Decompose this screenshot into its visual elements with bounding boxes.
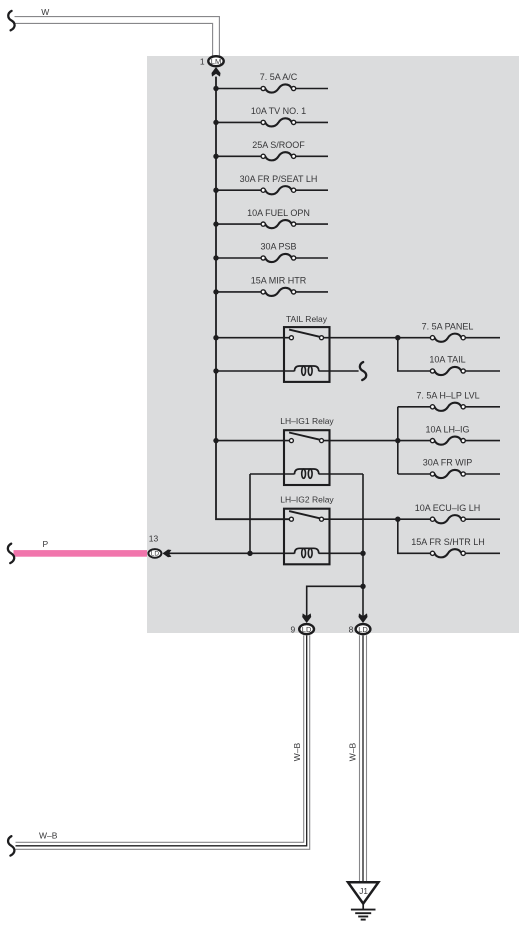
wire from relay coils down to connector 8 LD xyxy=(362,474,364,617)
junction coil ground at LH-IG2 xyxy=(360,551,365,556)
svg-text:TAIL Relay: TAIL Relay xyxy=(286,314,328,324)
junction at LH-IG2 relay output xyxy=(395,517,400,522)
connector 9 LD xyxy=(290,624,314,634)
junction at TAIL relay output xyxy=(395,335,400,340)
svg-text:7. 5A A/C: 7. 5A A/C xyxy=(260,72,298,82)
wire W-B from connector 9 LD to left edge xyxy=(16,635,310,849)
label W xyxy=(41,7,49,17)
junction on bus at TAIL relay switch xyxy=(213,335,218,340)
fuse F2 10A TV NO. 1 xyxy=(216,106,328,126)
TAIL relay coil xyxy=(216,366,359,375)
svg-text:30A FR P/SEAT LH: 30A FR P/SEAT LH xyxy=(240,174,318,184)
junction on bus at fuse 15A MIR HTR xyxy=(213,289,218,294)
wire from LH-IG1 output to 7.5A H-LP LVL and 30A FR WIP fuses xyxy=(398,407,431,474)
label P xyxy=(43,539,49,549)
fuse F13 10A ECU-IG LH xyxy=(415,503,500,523)
wire from LH-IG1 coil down to LD connectors xyxy=(249,474,251,553)
arrow into connector 8 LD xyxy=(359,613,368,623)
junction block panel xyxy=(147,56,519,633)
svg-text:10A LH–IG: 10A LH–IG xyxy=(425,424,469,434)
fuse F3 25A S/ROOF xyxy=(216,140,328,160)
junction of ground branch xyxy=(360,584,365,589)
arrow into connector 9 LD xyxy=(302,613,311,623)
junction on bus at fuse 30A PSB xyxy=(213,255,218,260)
junction of 13 LD wire with LH-IG1 coil branch xyxy=(247,551,252,556)
svg-text:W–B: W–B xyxy=(348,742,358,761)
label W-B rotated on 8 LD wire xyxy=(348,742,358,761)
LH-IG1 relay coil xyxy=(250,469,363,478)
svg-text:13: 13 xyxy=(149,533,159,543)
relay LH-IG2 xyxy=(280,495,334,565)
connector 13 LD xyxy=(148,533,161,557)
fuse F14 15A FR S/HTR LH xyxy=(411,537,500,557)
break symbol on wire P xyxy=(8,544,14,563)
junction on bus at fuse 7. 5A A/C xyxy=(213,86,218,91)
label W-B rotated on 9 LD wire xyxy=(292,742,302,761)
svg-text:LD: LD xyxy=(302,625,312,634)
fuse F8 7. 5A PANEL xyxy=(422,321,500,341)
svg-text:1: 1 xyxy=(200,56,205,66)
wire branch to connector 9 LD xyxy=(307,586,363,617)
break symbol on wire W xyxy=(8,11,14,30)
svg-text:LD: LD xyxy=(358,625,368,634)
wire W-B from connector 8 LD to ground J1 xyxy=(360,635,367,882)
svg-text:8: 8 xyxy=(349,624,354,634)
svg-text:W–B: W–B xyxy=(292,742,302,761)
bus wire from connector 1 LM down to LH-IG2 relay xyxy=(216,77,291,520)
svg-text:10A FUEL OPN: 10A FUEL OPN xyxy=(247,208,310,218)
svg-text:10A ECU–IG LH: 10A ECU–IG LH xyxy=(415,503,481,513)
fuse F5 10A FUEL OPN xyxy=(216,208,328,228)
svg-text:15A MIR HTR: 15A MIR HTR xyxy=(251,276,307,286)
relay TAIL xyxy=(284,314,330,382)
svg-text:LM: LM xyxy=(211,57,221,66)
svg-text:J1: J1 xyxy=(359,887,368,896)
svg-text:15A FR S/HTR LH: 15A FR S/HTR LH xyxy=(411,537,485,547)
svg-text:30A PSB: 30A PSB xyxy=(260,242,296,252)
fuse F11 10A LH-IG xyxy=(425,424,500,444)
connector 8 LD xyxy=(349,624,371,634)
break symbol after TAIL relay coil xyxy=(360,362,366,380)
LH-IG1 relay switch contact xyxy=(216,433,431,443)
wire from TAIL relay output down to 10A TAIL fuse xyxy=(398,338,431,371)
fuse F10 7. 5A H-LP LVL xyxy=(416,391,500,411)
wire P (pink) from left edge to connector 13 LD xyxy=(14,550,148,557)
wire from LH-IG2 output down to 15A FR S/HTR LH fuse xyxy=(398,519,431,553)
junction on bus at LH-IG1 relay switch xyxy=(213,438,218,443)
fuse F12 30A FR WIP xyxy=(423,458,500,478)
junction at LH-IG1 relay output xyxy=(395,438,400,443)
LH-IG2 relay coil xyxy=(169,548,364,557)
svg-text:W–B: W–B xyxy=(39,830,58,840)
LH-IG2 relay switch contact xyxy=(289,511,430,521)
svg-text:9: 9 xyxy=(290,624,295,634)
arrow into connector 13 LD xyxy=(163,550,172,558)
svg-text:7. 5A H–LP LVL: 7. 5A H–LP LVL xyxy=(416,391,479,401)
svg-text:P: P xyxy=(43,539,49,549)
junction on bus at fuse 25A S/ROOF xyxy=(213,154,218,159)
svg-text:LH–IG2 Relay: LH–IG2 Relay xyxy=(280,495,334,505)
TAIL relay switch contact xyxy=(216,330,431,340)
arrow into connector 1 LM xyxy=(212,67,221,77)
fuse F4 30A FR P/SEAT LH xyxy=(216,174,328,194)
wire W from left edge to connector 1 LM xyxy=(15,17,220,56)
ground J1 xyxy=(348,882,378,919)
junction on bus at fuse 10A TV NO. 1 xyxy=(213,120,218,125)
svg-text:W: W xyxy=(41,7,49,17)
relay LH-IG1 xyxy=(280,416,334,485)
junction on bus at TAIL relay coil xyxy=(213,368,218,373)
svg-text:LH–IG1 Relay: LH–IG1 Relay xyxy=(280,416,334,426)
break symbol on wire W-B left xyxy=(8,836,14,855)
svg-text:10A TV NO. 1: 10A TV NO. 1 xyxy=(251,106,306,116)
svg-text:7. 5A PANEL: 7. 5A PANEL xyxy=(422,321,474,331)
svg-text:25A S/ROOF: 25A S/ROOF xyxy=(252,140,305,150)
svg-text:10A TAIL: 10A TAIL xyxy=(429,355,465,365)
connector 1 LM xyxy=(200,56,224,66)
label W-B horizontal xyxy=(39,830,58,840)
fuse F9 10A TAIL xyxy=(429,355,500,375)
fuse F6 30A PSB xyxy=(216,242,328,262)
fuse F7 15A MIR HTR xyxy=(216,276,328,296)
junction on bus at fuse 10A FUEL OPN xyxy=(213,221,218,226)
svg-text:LD: LD xyxy=(151,551,160,558)
fuse F1 7. 5A A/C xyxy=(216,72,328,92)
svg-text:30A FR WIP: 30A FR WIP xyxy=(423,458,473,468)
junction on bus at fuse 30A FR P/SEAT LH xyxy=(213,188,218,193)
